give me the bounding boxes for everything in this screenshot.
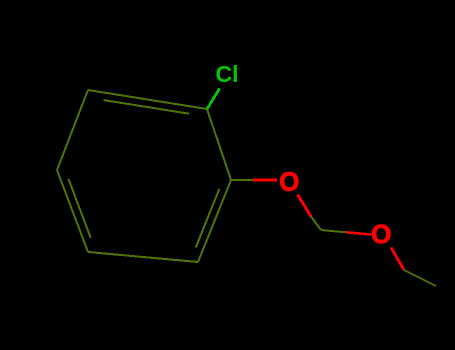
svg-text:O: O xyxy=(279,166,299,196)
bond C-Cl (chlorine colour) xyxy=(207,89,220,110)
wire ring edge A-B xyxy=(88,90,207,109)
svg-text:Cl: Cl xyxy=(216,61,239,87)
bond CH2-O2 carbon half xyxy=(321,230,346,232)
wire ring edge B-C xyxy=(57,90,88,170)
wire double bond inner E-F xyxy=(196,189,220,248)
bond O1-CH2 carbon half xyxy=(311,217,321,231)
wire ring edge F-A xyxy=(207,109,231,180)
wire double bond inner C-D xyxy=(68,179,90,238)
bond CH2-O2 oxygen half xyxy=(346,232,371,234)
bond O2-CH3 oxygen half xyxy=(391,248,404,271)
wire ring edge C-D xyxy=(57,170,88,252)
wire double bond inner A-B xyxy=(104,100,190,114)
bond O2-CH3 carbon half xyxy=(404,270,436,286)
benzene ring xyxy=(57,90,231,262)
bond F-O1 oxygen half xyxy=(253,179,277,182)
wire ring edge D-E xyxy=(88,252,198,262)
bond O1-CH2 oxygen half xyxy=(298,195,312,217)
svg-text:O: O xyxy=(371,219,391,249)
bond F-O1 carbon half xyxy=(231,179,253,181)
wire ring edge E-F xyxy=(198,180,231,262)
